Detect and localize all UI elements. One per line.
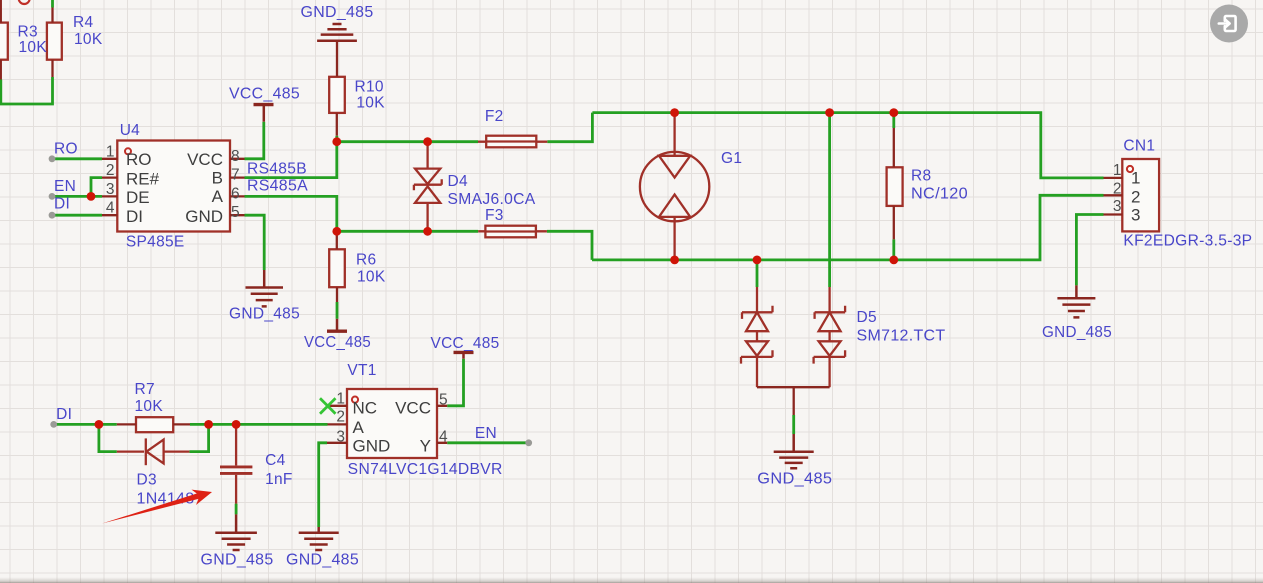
inverter VT1 SN74LVC1G14DBVR body xyxy=(327,389,447,458)
svg-text:D5: D5 xyxy=(857,309,877,326)
svg-text:3: 3 xyxy=(1131,206,1140,225)
wire R4 top feed xyxy=(51,0,54,8)
wire D5 right to top bus xyxy=(828,113,831,287)
svg-text:10K: 10K xyxy=(357,269,386,286)
wire EN net to U4 DE xyxy=(52,195,102,198)
svg-text:R6: R6 xyxy=(356,252,376,269)
junction D4/B line xyxy=(423,137,432,146)
partial red dot at top edge xyxy=(19,0,30,4)
junction DI/D3 left xyxy=(95,420,104,429)
wire DI net to U4 xyxy=(52,214,102,217)
junction C4 node xyxy=(232,420,241,429)
junction R7/D3 right xyxy=(204,420,213,429)
svg-text:U4: U4 xyxy=(120,122,140,139)
ui icon button top right xyxy=(1210,5,1248,43)
ground GND_485 below VT1 pin3 xyxy=(299,527,339,550)
svg-text:1: 1 xyxy=(1113,162,1122,179)
svg-text:R8: R8 xyxy=(911,168,931,185)
ground GND_485 below D5 xyxy=(774,434,814,468)
svg-text:GND_485: GND_485 xyxy=(1042,324,1112,341)
svg-text:RO: RO xyxy=(126,150,152,169)
svg-text:3: 3 xyxy=(106,181,115,198)
svg-text:DE: DE xyxy=(126,188,150,207)
resistor R6 xyxy=(329,231,345,302)
wire D5 common joiner xyxy=(757,387,830,415)
wire A: U4 pin6 to R6 junction xyxy=(245,196,337,231)
power VCC_485 above VT1 pin5 xyxy=(454,352,474,358)
svg-text:4: 4 xyxy=(439,429,448,446)
junction R6/A line xyxy=(332,227,341,236)
ground GND_485 below U4 pin5 xyxy=(246,270,284,306)
svg-text:1: 1 xyxy=(1131,169,1140,188)
svg-text:2: 2 xyxy=(336,409,345,426)
fuse F3 xyxy=(478,226,547,238)
svg-text:RS485B: RS485B xyxy=(247,161,307,178)
svg-text:R7: R7 xyxy=(135,381,155,398)
node RO endpoint dot xyxy=(49,155,56,162)
wire B: R10 junction to F2 xyxy=(337,140,478,143)
pin names CN1 xyxy=(1131,169,1140,225)
junction R8 bottom bus xyxy=(889,256,898,265)
svg-text:GND: GND xyxy=(353,437,391,456)
wire U4 pin5 to ground xyxy=(245,215,265,270)
svg-text:GND_485: GND_485 xyxy=(301,4,374,21)
junction D5 right top bus xyxy=(825,108,834,117)
wire R8 bottom xyxy=(892,239,895,260)
svg-text:CN1: CN1 xyxy=(1123,138,1155,155)
svg-text:GND_485: GND_485 xyxy=(757,471,832,488)
svg-text:4: 4 xyxy=(106,200,115,217)
junction G1 bottom bus xyxy=(670,256,679,265)
svg-text:KF2EDGR-3.5-3P: KF2EDGR-3.5-3P xyxy=(1123,233,1252,250)
svg-text:R4: R4 xyxy=(73,14,93,31)
junction G1 top bus xyxy=(670,108,679,117)
svg-text:EN: EN xyxy=(475,425,497,442)
junction D4/A line xyxy=(423,227,432,236)
svg-text:VCC: VCC xyxy=(395,399,431,418)
pin numbers CN1 xyxy=(1113,162,1122,215)
power VCC_485 above U4 pin8 xyxy=(254,105,274,122)
svg-text:B: B xyxy=(212,169,223,188)
wire D5 to ground xyxy=(792,415,795,434)
wire R10 bottom green bit xyxy=(335,136,338,142)
svg-text:1: 1 xyxy=(106,143,115,160)
TVS diode array D5 SM712.TCT right stack xyxy=(814,287,846,387)
svg-text:VCC_485: VCC_485 xyxy=(304,334,371,351)
svg-text:D3: D3 xyxy=(137,472,157,489)
junction EN/DE node xyxy=(87,192,96,201)
wire A: F3 to bottom bus xyxy=(547,231,592,260)
fuse F2 xyxy=(478,136,547,148)
node DI endpoint dot xyxy=(49,212,56,219)
svg-text:3: 3 xyxy=(1113,198,1122,215)
svg-text:SP485E: SP485E xyxy=(126,234,185,251)
svg-text:10K: 10K xyxy=(19,39,48,56)
svg-text:8: 8 xyxy=(231,148,240,165)
wire A: R6 junction to F3 xyxy=(337,230,478,233)
svg-text:10K: 10K xyxy=(135,398,164,415)
junction D5 left bottom bus xyxy=(753,256,762,265)
capacitor C4 xyxy=(220,424,252,503)
wire A: bottom bus to CN1 pin2 xyxy=(592,195,1104,260)
svg-text:C4: C4 xyxy=(265,452,285,469)
svg-text:5: 5 xyxy=(231,204,240,221)
svg-text:RO: RO xyxy=(54,141,78,158)
svg-text:SMAJ6.0CA: SMAJ6.0CA xyxy=(448,191,536,208)
wire VCC_485 to U4 pin8 xyxy=(245,122,264,159)
svg-text:DI: DI xyxy=(54,196,70,213)
svg-text:RE#: RE# xyxy=(126,169,160,188)
svg-text:2: 2 xyxy=(1131,188,1140,207)
ground GND_485 below C4 xyxy=(215,514,257,550)
wire VT1 pin4 to EN xyxy=(447,441,529,444)
svg-text:2: 2 xyxy=(106,162,115,179)
svg-text:SM712.TCT: SM712.TCT xyxy=(857,328,946,345)
svg-text:6: 6 xyxy=(231,185,240,202)
wire R3/R4 bottom net xyxy=(0,77,53,104)
wire R3 bottom to net xyxy=(0,80,2,105)
wire D3 left branch xyxy=(99,424,117,451)
TVS diode array D5 SM712.TCT left stack xyxy=(741,287,773,387)
resistor R4 xyxy=(47,8,62,78)
svg-text:10K: 10K xyxy=(74,31,103,48)
svg-text:Y: Y xyxy=(420,437,431,456)
svg-text:R10: R10 xyxy=(355,79,384,96)
diode D3 1N4148 xyxy=(117,438,190,465)
svg-text:5: 5 xyxy=(439,392,448,409)
wire VT1 pin3 to ground xyxy=(319,443,327,527)
op-amp U4 SP485E body xyxy=(102,141,245,232)
wire R8 top xyxy=(892,113,895,128)
wire D5 left top xyxy=(756,260,759,287)
svg-text:GND: GND xyxy=(185,207,223,226)
annotation red arrow xyxy=(102,490,212,524)
wire VT1 pin5 to VCC_485 xyxy=(447,359,463,406)
svg-text:10K: 10K xyxy=(356,95,385,112)
no-connect X on VT1 pin1 xyxy=(320,398,336,414)
svg-text:2: 2 xyxy=(1113,181,1122,198)
svg-text:VT1: VT1 xyxy=(347,362,376,379)
svg-text:EN: EN xyxy=(54,178,76,195)
svg-text:NC/120: NC/120 xyxy=(911,186,968,203)
node EN endpoint dot xyxy=(49,193,56,200)
svg-text:VCC_485: VCC_485 xyxy=(431,335,500,352)
pin names VT1 xyxy=(353,399,432,456)
svg-text:1nF: 1nF xyxy=(265,471,293,488)
svg-text:A: A xyxy=(212,187,224,206)
svg-text:VCC_485: VCC_485 xyxy=(229,86,300,103)
svg-text:GND_485: GND_485 xyxy=(286,552,359,569)
svg-text:R3: R3 xyxy=(18,24,38,41)
svg-text:DI: DI xyxy=(56,406,72,423)
wire CN1 pin3 to ground xyxy=(1076,215,1103,286)
wire D3 right branch xyxy=(189,424,208,451)
svg-text:7: 7 xyxy=(231,167,240,184)
wire B: top bus to CN1 pin1 xyxy=(592,113,1103,178)
node EN endpoint dot bottom xyxy=(525,439,532,446)
junction R8 top bus xyxy=(889,108,898,117)
wire B: F2 to top bus xyxy=(547,113,592,142)
wire C4 to ground xyxy=(235,504,238,515)
ground GND_485 top (inverted, above R10) xyxy=(317,24,357,42)
wire RO net xyxy=(52,157,102,160)
svg-text:F2: F2 xyxy=(485,108,504,125)
wire B: U4 pin7 to R10 junction xyxy=(245,142,337,178)
svg-text:SN74LVC1G14DBVR: SN74LVC1G14DBVR xyxy=(348,461,503,478)
pin names U4 xyxy=(126,150,224,226)
junction R10/B line xyxy=(332,137,341,146)
svg-text:DI: DI xyxy=(126,207,143,226)
svg-text:RS485A: RS485A xyxy=(247,178,308,195)
svg-text:1: 1 xyxy=(336,390,345,407)
pin numbers VT1 xyxy=(336,390,448,445)
TVS diode D4 SMAJ6.0CA xyxy=(414,142,442,232)
node DI endpoint dot bottom xyxy=(50,421,57,428)
resistor R7 xyxy=(117,417,190,432)
svg-text:GND_485: GND_485 xyxy=(201,552,274,569)
wire R7 to VT1 pin2 xyxy=(190,423,328,426)
wire EN branch to U4 RE# xyxy=(91,178,102,197)
svg-text:F3: F3 xyxy=(485,207,504,224)
resistor R3 xyxy=(0,0,8,80)
svg-text:A: A xyxy=(353,418,365,437)
resistor R8 xyxy=(887,128,903,239)
ground GND_485 below CN1 pin3 xyxy=(1057,285,1095,317)
svg-text:GND_485: GND_485 xyxy=(229,306,300,323)
bottom edge fade xyxy=(0,577,1263,583)
svg-text:NC: NC xyxy=(353,399,378,418)
svg-text:3: 3 xyxy=(336,428,345,445)
resistor R10 xyxy=(329,42,345,136)
svg-text:D4: D4 xyxy=(448,173,468,190)
power VCC_485 below R6 xyxy=(327,319,347,331)
wire DI to R7 xyxy=(54,423,117,426)
pin numbers U4 xyxy=(106,143,240,221)
svg-text:VCC: VCC xyxy=(187,150,223,169)
svg-text:G1: G1 xyxy=(721,150,742,167)
wire R6 to VCC_485 xyxy=(336,302,339,319)
gas discharge tube G1 xyxy=(640,113,709,260)
connector CN1 KF2EDGR-3.5-3P body xyxy=(1104,159,1160,231)
